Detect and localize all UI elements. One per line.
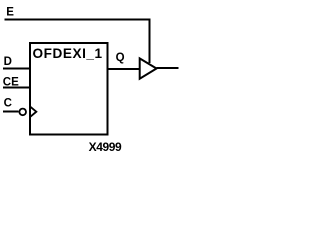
wire D input xyxy=(3,68,30,70)
wire E vertical drop to buffer enable xyxy=(149,19,151,64)
wire C input xyxy=(3,111,19,113)
svg-text:X4999: X4999 xyxy=(89,140,122,154)
inversion bubble on C input xyxy=(19,109,26,116)
svg-text:E: E xyxy=(6,7,14,19)
tristate output buffer xyxy=(140,58,157,78)
wire E horizontal xyxy=(5,19,151,21)
svg-text:OFDEXI_1: OFDEXI_1 xyxy=(33,46,103,61)
wire buffer output xyxy=(157,67,179,69)
svg-text:Q: Q xyxy=(116,52,125,64)
svg-text:D: D xyxy=(4,56,12,68)
wire CE input xyxy=(3,87,30,89)
flip-flop symbol body U1 OFDEXI_1 xyxy=(30,43,107,135)
svg-text:C: C xyxy=(4,98,12,110)
clock wedge inside symbol on C pin xyxy=(30,106,37,117)
wire Q output to buffer xyxy=(107,68,140,70)
